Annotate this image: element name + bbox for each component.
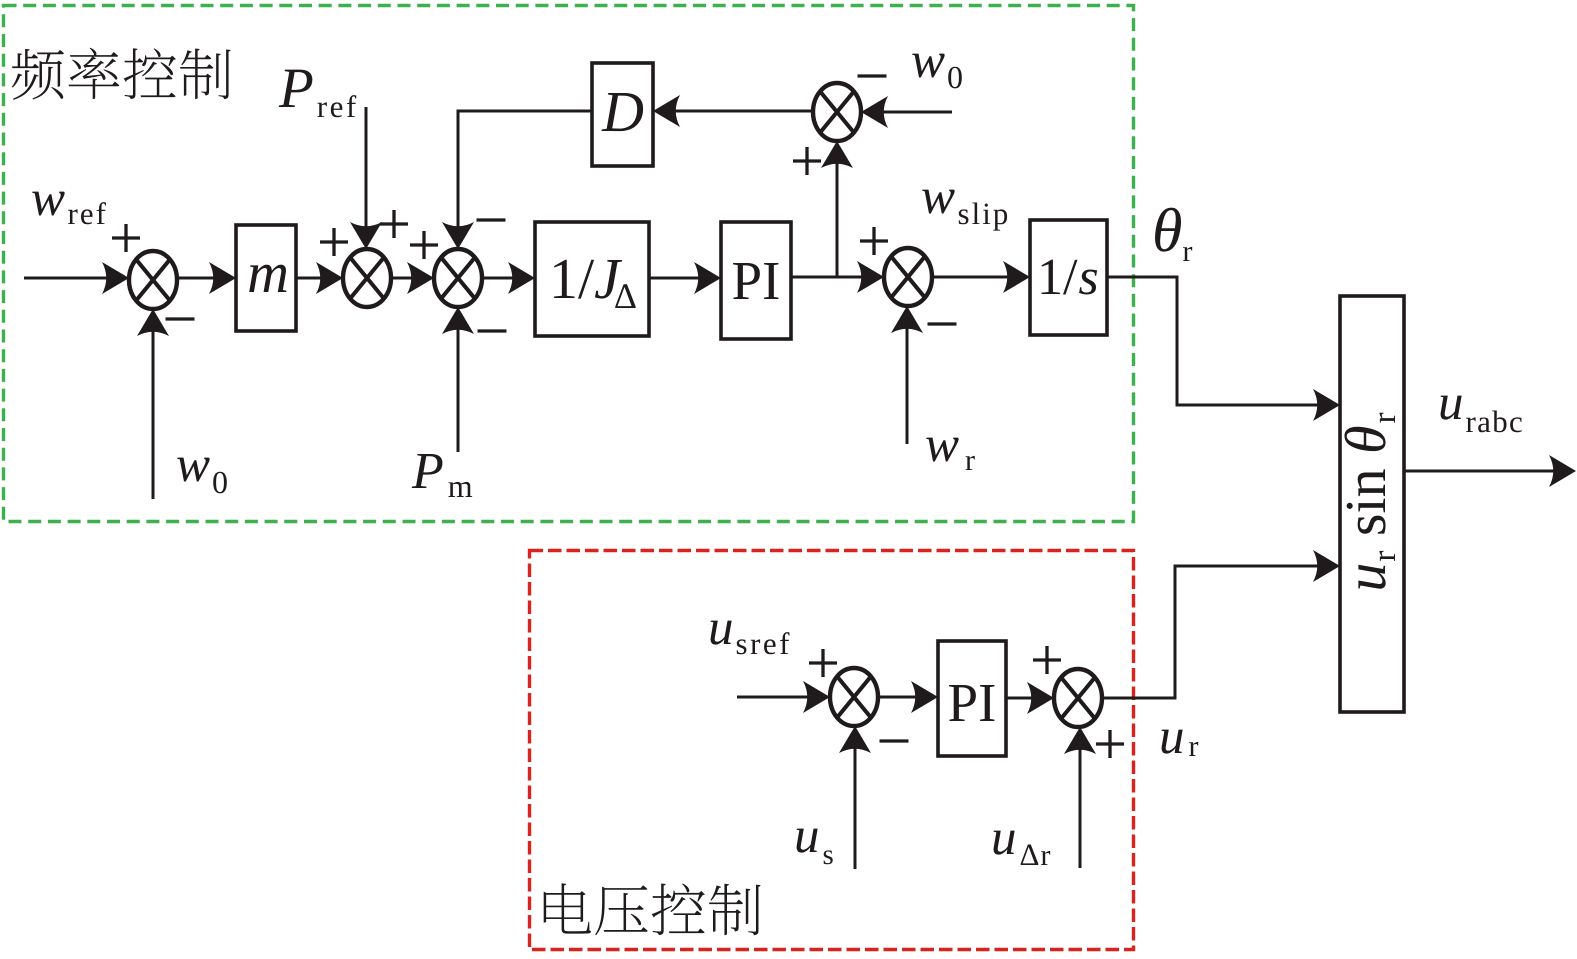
node sum_top (-w0)	[813, 83, 861, 141]
label w_slip	[922, 190, 1007, 231]
label u_rabc	[1441, 396, 1522, 433]
label w_r	[926, 438, 975, 470]
node sum4 (w_slip)	[884, 248, 932, 306]
wire w0 input bottom left	[152, 326, 155, 499]
label u_dr	[994, 831, 1051, 865]
label w_ref	[32, 192, 106, 225]
wire 1/J to PI	[649, 277, 704, 280]
label: voltage control (Chinese)	[544, 883, 761, 935]
block 1/J_delta	[535, 222, 649, 336]
label w_0 upper	[912, 54, 962, 89]
wire u_dr input	[1079, 744, 1082, 868]
block 1/s	[1030, 220, 1107, 335]
node sum1 (w_ref - w0)	[129, 251, 177, 309]
wire sum5 to PI2	[878, 696, 921, 699]
wire m to sum2	[296, 277, 326, 280]
block m	[236, 225, 296, 331]
block PI (frequency)	[721, 222, 791, 339]
wire top sum to D	[670, 110, 814, 113]
wire sum1 to m	[177, 277, 219, 280]
voltage-control dashed box	[530, 551, 1134, 950]
label u_r	[1162, 730, 1199, 756]
node sum2 (+P_ref)	[343, 249, 391, 307]
frequency-control dashed box	[4, 6, 1134, 522]
wire PI2 to sum6	[1006, 697, 1037, 700]
block u_r sin theta_r	[1340, 296, 1404, 712]
wire PI to sum4	[791, 276, 867, 279]
wire u_s input	[854, 743, 857, 869]
wire D feedback into sum3	[458, 111, 592, 232]
wire theta_r from 1/s into sin block	[1107, 277, 1323, 405]
label u_sref	[711, 621, 790, 655]
label u_s	[797, 829, 833, 865]
label theta_r	[1155, 208, 1192, 261]
wire sum3 to 1/J	[482, 277, 518, 280]
wire sum4 to 1/s	[932, 276, 1013, 279]
label w_0 lower	[177, 458, 227, 494]
block D	[592, 63, 653, 166]
node sum3 (-D, -P_m)	[434, 249, 482, 307]
label: frequency control (Chinese)	[12, 48, 231, 100]
wire P_ref input	[365, 107, 368, 232]
block PI (voltage)	[938, 641, 1006, 756]
wire u_rabc output	[1404, 470, 1559, 473]
node sum5 (u_sref - u_s)	[830, 668, 878, 726]
node sum6 (+u_dr)	[1054, 669, 1102, 727]
label P_ref	[279, 70, 357, 118]
label P_m	[412, 454, 472, 497]
wire u_sref input	[737, 696, 813, 699]
wire junction up into top sum	[836, 158, 839, 277]
wire w_ref input	[24, 277, 112, 280]
wire u_r from sum6 into sin block	[1102, 566, 1323, 698]
wire w_r input	[906, 323, 909, 444]
wire P_m input	[457, 324, 460, 452]
wire w0 into top sum	[877, 111, 952, 114]
wire sum2 to sum3	[391, 277, 417, 280]
